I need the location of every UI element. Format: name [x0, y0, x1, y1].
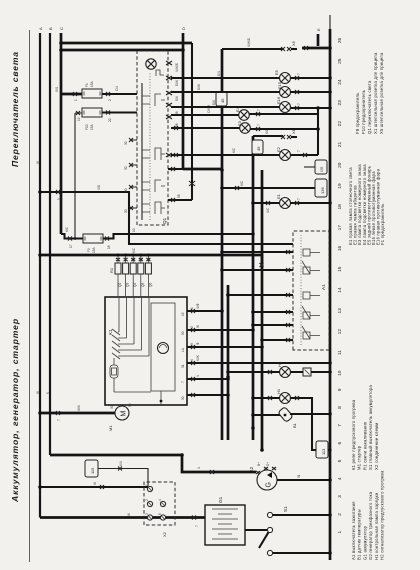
- Q1 pin to node row: [168, 194, 192, 202]
- svg-text:Н1 контрольная лампа зарядки: Н1 контрольная лампа зарядки: [374, 492, 379, 560]
- Q1 internal common rail: [141, 83, 143, 220]
- svg-text:4: 4: [190, 359, 194, 361]
- svg-text:Ж: Ж: [36, 391, 40, 394]
- svg-text:F9 предохранитель: F9 предохранитель: [355, 92, 360, 134]
- Q1 internal contacts: [142, 94, 165, 214]
- K1 inner unit: [151, 303, 175, 391]
- svg-text:Б/Ж: Б/Ж: [197, 84, 201, 90]
- Q1 internal illumination lamp: [146, 59, 164, 76]
- svg-text:1: 1: [190, 307, 194, 309]
- svg-text:E16: E16: [276, 96, 281, 104]
- svg-text:V/S: V/S: [55, 87, 59, 92]
- svg-text:50: 50: [181, 331, 185, 335]
- crossref box 45: [216, 92, 227, 106]
- svg-text:Ч/Ж/Б: Ч/Ж/Б: [175, 63, 179, 72]
- ignition switch A1 (dashed box): [293, 231, 329, 350]
- battery G1: [205, 496, 245, 545]
- svg-text:F1: F1: [85, 83, 89, 87]
- svg-text:7: 7: [297, 103, 301, 105]
- svg-text:К/Ж: К/Ж: [196, 355, 200, 361]
- svg-text:Х2 соединение клемм: Х2 соединение клемм: [374, 423, 379, 470]
- Q1 internal coupling (dotted): [149, 73, 151, 220]
- wire rail y228: [226, 285, 230, 440]
- lamp E15: [277, 81, 291, 97]
- wire D drop to rail: [183, 168, 222, 171]
- svg-text:D+: D+: [266, 462, 270, 466]
- wire E15 ground: [291, 90, 332, 94]
- bus A: [36, 27, 43, 518]
- ground sub-rail: [316, 108, 320, 155]
- lamp E5: [274, 69, 291, 83]
- connector X2 (dashed box): [144, 482, 175, 537]
- svg-text:Q2: Q2: [118, 283, 122, 287]
- svg-text:М1 стартер: М1 стартер: [357, 445, 362, 470]
- svg-text:7: 7: [181, 381, 185, 383]
- fuse F10: [82, 108, 102, 130]
- sensor B1: [251, 407, 297, 428]
- svg-text:G: G: [266, 482, 273, 487]
- legend column 3: [348, 164, 385, 245]
- wire rail y262: [260, 170, 264, 452]
- svg-text:6: 6: [337, 442, 343, 445]
- svg-text:30: 30: [124, 209, 128, 213]
- wire X5 feed: [222, 38, 283, 49]
- K1 pin LA: [181, 342, 264, 352]
- svg-text:1: 1: [74, 99, 78, 101]
- svg-text:G1 аккумулятор: G1 аккумулятор: [362, 525, 367, 560]
- svg-text:30: 30: [181, 396, 185, 400]
- svg-text:22: 22: [337, 121, 343, 127]
- svg-text:S1: S1: [283, 506, 288, 512]
- A1 internal contacts: [301, 235, 320, 345]
- svg-text:К/Ч: К/Ч: [119, 461, 123, 466]
- svg-text:19: 19: [77, 117, 81, 121]
- wires R1 to ground column: [116, 254, 150, 264]
- track numbers 1-26: [337, 37, 343, 533]
- bus D: [181, 27, 186, 169]
- svg-text:Q5: Q5: [141, 283, 145, 287]
- wire C to node 192 (right drop): [59, 41, 192, 45]
- svg-text:G2: G2: [249, 466, 254, 473]
- svg-text:19: 19: [337, 183, 343, 189]
- svg-text:Q6: Q6: [148, 283, 152, 287]
- svg-text:25: 25: [337, 58, 343, 64]
- fuse F1: [82, 80, 102, 98]
- svg-text:Аккумулятор, генератор, старте: Аккумулятор, генератор, стартер: [10, 318, 20, 503]
- svg-text:7: 7: [57, 419, 61, 421]
- wire E5 ground: [291, 73, 332, 80]
- svg-text:C/K/3: C/K/3: [207, 105, 211, 113]
- wire E4 to rail y262: [249, 109, 318, 116]
- svg-text:Ж: Ж: [127, 513, 131, 516]
- svg-text:Ч/Б: Ч/Б: [97, 185, 101, 190]
- svg-text:Н2 сигнализатор предпускового: Н2 сигнализатор предпускового прогрева: [380, 470, 385, 560]
- svg-text:Ч/С: Ч/С: [266, 207, 270, 213]
- svg-text:8: 8: [337, 406, 343, 409]
- svg-text:7: 7: [297, 73, 301, 75]
- svg-text:F10 предохранитель: F10 предохранитель: [361, 90, 366, 134]
- wire Q1 pin to lamp E2: [171, 147, 279, 157]
- svg-text:F1 предохранитель: F1 предохранитель: [380, 203, 385, 245]
- wire Q1 pin to lamp E5: [171, 71, 279, 78]
- svg-text:7: 7: [257, 109, 261, 111]
- crossref box 136: [220, 179, 327, 197]
- wire Q1 pin to lamp E3: [171, 126, 240, 130]
- svg-text:В1 датчик температуры: В1 датчик температуры: [357, 509, 362, 560]
- svg-text:H2: H2: [277, 361, 282, 367]
- svg-text:B+: B+: [257, 462, 261, 466]
- indicator lamp H1: [251, 388, 290, 403]
- wire H2 ground: [291, 368, 332, 376]
- svg-text:20: 20: [337, 162, 343, 168]
- svg-text:18: 18: [337, 204, 343, 210]
- wire Q1 pin to lamp E15: [171, 84, 279, 92]
- svg-text:Ч: Ч: [197, 467, 201, 469]
- A1 pin wires: [222, 250, 293, 342]
- svg-text:Переключатель света: Переключатель света: [10, 51, 20, 167]
- wire A to X2 pin1: [38, 482, 148, 489]
- svg-text:C: C: [59, 27, 64, 30]
- svg-text:21: 21: [337, 141, 343, 147]
- svg-text:17: 17: [69, 244, 73, 248]
- svg-text:5: 5: [337, 459, 343, 462]
- bus B: [46, 27, 53, 455]
- wire rail y253: [251, 136, 255, 440]
- svg-text:Ж: Ж: [196, 325, 200, 328]
- crossref box 45b: [252, 140, 263, 154]
- wire H1 ground via 113: [291, 396, 317, 450]
- svg-text:26: 26: [337, 37, 343, 43]
- svg-text:10: 10: [337, 370, 343, 376]
- bus C: [55, 27, 64, 234]
- wire E2 ground: [291, 150, 319, 157]
- svg-text:Q1: Q1: [162, 217, 167, 224]
- svg-text:45: 45: [256, 146, 261, 151]
- Q1 bottom pins: [166, 61, 179, 157]
- wire F10 to Q1 pin: [102, 111, 137, 123]
- wire F9 output to node: [103, 228, 255, 249]
- svg-text:К/С: К/С: [65, 226, 69, 232]
- svg-text:E3: E3: [237, 120, 242, 126]
- ground tick E: [302, 28, 330, 50]
- wire C to D (left drop): [59, 48, 185, 52]
- svg-text:H1: H1: [276, 388, 281, 394]
- svg-text:2: 2: [145, 499, 149, 501]
- svg-text:Х1 штепсельная розетка для пр: Х1 штепсельная розетка для прицепа: [373, 52, 378, 134]
- svg-text:S1 главный выключатель аккуму: S1 главный выключатель аккумулятора: [368, 384, 373, 470]
- svg-text:31: 31: [181, 364, 185, 368]
- K1 pin 30: [181, 393, 230, 400]
- wire A to starter: [38, 405, 115, 421]
- svg-text:3: 3: [190, 343, 194, 345]
- svg-text:30: 30: [110, 405, 114, 409]
- wire C bend into fuse F1: [61, 92, 82, 101]
- svg-text:К: К: [46, 392, 50, 394]
- Q1 pin to bus D: [168, 167, 183, 171]
- svg-text:7: 7: [297, 198, 301, 200]
- indicator lamp H2: [228, 361, 291, 377]
- svg-text:12: 12: [337, 329, 343, 335]
- X2 pins: [145, 484, 166, 520]
- K1 pin 7: [181, 375, 230, 383]
- main switch S1: [259, 506, 288, 556]
- svg-text:Б/Ч: Б/Ч: [217, 71, 221, 76]
- svg-text:15A: 15A: [92, 246, 96, 253]
- wire Q1 pin to lamp E4: [171, 105, 239, 115]
- svg-text:Б/Ж: Б/Ж: [175, 80, 179, 86]
- K1 pin 15: [181, 303, 224, 316]
- K1 pin 31: [181, 355, 332, 368]
- svg-text:3: 3: [145, 513, 149, 515]
- svg-text:15: 15: [337, 266, 343, 272]
- wire G2 ground: [277, 474, 332, 482]
- svg-text:F10: F10: [85, 124, 89, 130]
- svg-text:G1: G1: [218, 496, 223, 503]
- crossref box 115: [85, 460, 98, 477]
- svg-text:К/С: К/С: [132, 247, 136, 253]
- fuse F9: [83, 234, 103, 253]
- svg-text:15: 15: [181, 312, 185, 316]
- svg-text:5: 5: [57, 198, 61, 200]
- header separator line: [29, 30, 31, 562]
- svg-text:E4: E4: [235, 106, 240, 112]
- wire E16 ground: [291, 103, 332, 110]
- crossref box 135: [304, 160, 327, 174]
- svg-text:G2 генератор трехфазного тока: G2 генератор трехфазного тока: [368, 491, 373, 560]
- svg-text:6: 6: [158, 513, 162, 515]
- svg-text:X5: X5: [291, 40, 296, 46]
- svg-text:Ч: Ч: [196, 375, 200, 377]
- svg-text:А1 выключатель зажигания: А1 выключатель зажигания: [351, 501, 356, 560]
- svg-text:23: 23: [337, 100, 343, 106]
- svg-text:M: M: [121, 411, 128, 417]
- Q1 top pins: [124, 138, 137, 213]
- svg-text:E1: E1: [276, 193, 281, 199]
- lamp E4: [235, 106, 249, 120]
- wire E1 feed from rail y262: [251, 201, 279, 213]
- legend column 2: [351, 384, 379, 470]
- svg-text:Ч/Ф: Ч/Ф: [196, 303, 200, 309]
- svg-text:Q3: Q3: [126, 283, 130, 287]
- svg-text:3: 3: [337, 495, 343, 498]
- glow plugs R1: [109, 263, 152, 287]
- svg-text:A: A: [38, 27, 43, 30]
- lamp E16: [276, 96, 291, 112]
- wire X1 feed: [253, 128, 283, 136]
- svg-text:136: 136: [320, 187, 325, 194]
- svg-text:16: 16: [337, 245, 343, 251]
- svg-text:14: 14: [337, 287, 343, 293]
- svg-text:58: 58: [177, 194, 181, 198]
- svg-text:К/С: К/С: [240, 180, 244, 186]
- svg-text:Ж: Ж: [93, 482, 97, 485]
- svg-text:К1 реле предпускового прогрев: К1 реле предпускового прогрева: [351, 399, 356, 470]
- crossref box 113: [316, 441, 332, 458]
- light switch Q1 (dashed box): [137, 51, 168, 225]
- K1 contact hatching: [112, 329, 120, 359]
- ground bus E: [328, 15, 332, 560]
- svg-text:113: 113: [321, 448, 326, 455]
- wire A to battery: [40, 513, 205, 527]
- svg-text:9: 9: [337, 388, 343, 391]
- svg-text:7: 7: [257, 124, 261, 126]
- K1 inner wires: [114, 298, 161, 405]
- K1 pin 50: [181, 325, 255, 335]
- wire B to generator: [50, 453, 256, 474]
- wire Q1 pin to lamp E16: [171, 100, 279, 107]
- svg-text:2: 2: [337, 513, 343, 516]
- wire B1 ground: [290, 412, 332, 416]
- svg-text:R1 свечи накаливания: R1 свечи накаливания: [362, 422, 367, 470]
- svg-text:F9: F9: [87, 248, 91, 252]
- wire battery to switch S1: [245, 529, 267, 531]
- svg-text:4: 4: [158, 499, 162, 501]
- starter M1: [108, 403, 132, 431]
- svg-text:15A: 15A: [90, 80, 94, 87]
- svg-text:Ж: Ж: [36, 161, 40, 164]
- trailer socket X5: [281, 40, 297, 51]
- generator G2: [249, 462, 277, 490]
- wire E1 ground: [291, 198, 332, 205]
- svg-text:2: 2: [108, 99, 112, 101]
- svg-text:C/4: C/4: [115, 86, 119, 91]
- svg-text:20: 20: [108, 118, 112, 122]
- wire 115 to X2: [98, 461, 148, 486]
- svg-text:K1: K1: [108, 329, 113, 335]
- wire A to node column x315: [38, 247, 263, 268]
- svg-text:30: 30: [124, 141, 128, 145]
- svg-text:1: 1: [145, 484, 149, 486]
- lamp E3: [237, 120, 250, 133]
- lamp E1: [276, 193, 291, 208]
- svg-text:24: 24: [337, 79, 343, 85]
- svg-text:D: D: [181, 27, 186, 30]
- svg-text:1: 1: [337, 531, 343, 534]
- svg-text:7: 7: [297, 150, 301, 152]
- svg-text:31: 31: [297, 474, 301, 478]
- svg-text:Ж/К: Ж/К: [77, 405, 81, 411]
- svg-text:B1: B1: [292, 422, 297, 428]
- svg-text:30: 30: [124, 166, 128, 170]
- svg-text:A1: A1: [321, 284, 326, 290]
- svg-text:Б/К: Б/К: [175, 96, 179, 101]
- svg-text:X2: X2: [162, 531, 167, 537]
- svg-text:50: 50: [128, 403, 132, 407]
- svg-text:Б/К: Б/К: [212, 100, 216, 105]
- svg-text:45: 45: [220, 98, 225, 103]
- wires K1 to R1: [118, 274, 148, 297]
- wire node row 192: [189, 43, 195, 200]
- svg-text:7: 7: [337, 424, 343, 427]
- svg-text:E2: E2: [276, 146, 281, 152]
- svg-text:К/С: К/С: [232, 147, 236, 153]
- svg-text:30: 30: [124, 188, 128, 192]
- legend column 1: [351, 470, 385, 560]
- svg-text:B: B: [48, 27, 53, 30]
- svg-text:17: 17: [337, 225, 343, 231]
- wire F9 feed (long thin): [61, 226, 83, 248]
- svg-text:Q4: Q4: [133, 283, 137, 287]
- svg-text:7: 7: [195, 525, 199, 527]
- svg-text:E: E: [316, 28, 321, 31]
- svg-text:115: 115: [90, 467, 95, 474]
- trailer socket X1: [281, 128, 297, 139]
- svg-text:18: 18: [107, 245, 111, 249]
- svg-text:Q1 переключатель света: Q1 переключатель света: [367, 80, 372, 134]
- K1 inner component: [110, 365, 118, 378]
- svg-text:135: 135: [320, 166, 324, 172]
- svg-text:2: 2: [190, 326, 194, 328]
- svg-text:M1: M1: [108, 425, 113, 431]
- wire B to fuse F10: [74, 111, 82, 240]
- legend column 4: [355, 52, 384, 134]
- wire rail y222: [220, 49, 224, 440]
- svg-text:E5: E5: [274, 69, 279, 75]
- svg-text:10: 10: [132, 228, 136, 232]
- wire F1 to Q1 pin: [102, 86, 137, 101]
- glow plug relay K1 (box): [105, 297, 187, 405]
- svg-text:11: 11: [337, 350, 343, 355]
- svg-text:15A: 15A: [90, 123, 94, 130]
- svg-text:Ч/Ж/Б: Ч/Ж/Б: [247, 38, 251, 47]
- svg-text:4: 4: [337, 477, 343, 480]
- svg-text:13: 13: [337, 308, 343, 314]
- wire A feed to Q1: [38, 185, 293, 244]
- lamp E2: [276, 146, 291, 160]
- wire S1 grounds: [273, 513, 332, 555]
- svg-text:R1: R1: [109, 267, 114, 273]
- svg-text:Х5 штепсельная розетка для пр: Х5 штепсельная розетка для прицепа: [379, 52, 384, 134]
- wire E3 to rail y262: [250, 124, 318, 131]
